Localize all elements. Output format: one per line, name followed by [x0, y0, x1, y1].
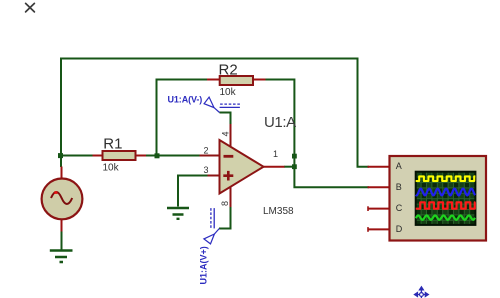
- op-amp plus input marker: [223, 171, 233, 181]
- pin stub scope D: [368, 228, 390, 230]
- ground near op-amp pin 3: [167, 208, 189, 219]
- voltage probe U1:A(V-): [204, 97, 240, 112]
- svg-text:U1:A: U1:A: [264, 114, 296, 131]
- oscilloscope body: [390, 156, 487, 241]
- pin stub R2 left: [207, 79, 220, 81]
- svg-text:B: B: [396, 182, 402, 192]
- junction node at op-amp output: [292, 164, 297, 169]
- wire R1 to op-amp pin 2: [146, 155, 200, 157]
- pin stub scope B: [368, 186, 390, 188]
- svg-text:1: 1: [273, 149, 278, 159]
- svg-text:LM358: LM358: [263, 206, 294, 217]
- wire top loop with left vertical: [61, 59, 358, 167]
- svg-text:10k: 10k: [103, 163, 120, 174]
- op-amp U1 triangle: [220, 140, 264, 194]
- wire R1 row left: [60, 155, 93, 157]
- resistor R1 body: [103, 151, 136, 160]
- wire scope channel A vertical: [358, 58, 370, 167]
- pin stub scope C: [368, 208, 390, 210]
- junction node at R1/feedback: [155, 153, 160, 158]
- svg-text:10k: 10k: [220, 87, 237, 98]
- wire source top: [60, 156, 62, 167]
- resistor R2 body: [220, 76, 253, 85]
- voltage probe U1:A(V+): [204, 208, 219, 244]
- pin stub source bottom: [61, 220, 63, 232]
- pin end tick scope D: [367, 227, 369, 232]
- pin 4 stub op-amp: [230, 124, 232, 148]
- pin stub R1 right: [135, 155, 146, 157]
- ground under source: [50, 251, 73, 263]
- close button X: [26, 3, 35, 12]
- svg-text:U1:A(V-): U1:A(V-): [168, 94, 203, 104]
- wire source bottom to ground: [61, 231, 63, 250]
- oscilloscope screen: [416, 172, 476, 225]
- blue sine wave trace: [416, 189, 475, 196]
- wire op-amp output green: [284, 166, 295, 168]
- wire R2 right down to scope channel B: [265, 80, 369, 188]
- pin 1 stub op-amp output: [264, 166, 285, 168]
- op-amp minus input marker: [224, 155, 234, 158]
- move cursor icon: [414, 287, 428, 298]
- yellow square wave trace: [416, 176, 476, 181]
- pin stub R2 right: [253, 79, 266, 81]
- svg-text:3: 3: [204, 165, 209, 175]
- svg-text:U1:A(V+): U1:A(V+): [199, 246, 209, 284]
- pin 3 stub op-amp: [208, 175, 220, 177]
- svg-text:2: 2: [204, 146, 209, 156]
- sine origin dot: [54, 191, 57, 194]
- svg-text:R1: R1: [103, 136, 122, 153]
- svg-text:A: A: [396, 161, 402, 171]
- junction node upper on output vertical: [292, 154, 297, 159]
- svg-text:4: 4: [221, 131, 231, 136]
- pin stub R1 left: [93, 155, 104, 157]
- wire feedback vertical to R2: [157, 80, 208, 156]
- sine symbol inside source: [51, 192, 72, 204]
- wire V- probe to op-amp pin 4: [220, 113, 231, 125]
- svg-text:C: C: [396, 203, 403, 213]
- sine voltage source V1: [42, 179, 83, 220]
- wire op-amp pin 3 to ground: [178, 176, 208, 207]
- green sine wave trace: [416, 215, 475, 219]
- pin 8 stub op-amp: [230, 187, 232, 208]
- svg-text:D: D: [396, 224, 403, 234]
- pin stub source top: [61, 167, 63, 180]
- wire op-amp pin 8 to V+ probe: [219, 207, 231, 229]
- svg-text:8: 8: [220, 201, 230, 206]
- pin 2 stub op-amp: [200, 155, 220, 157]
- pin end tick scope C: [367, 206, 369, 211]
- junction node at source/R1: [58, 153, 63, 158]
- svg-text:R2: R2: [219, 61, 238, 78]
- pin stub scope A: [368, 166, 390, 168]
- red square wave trace: [416, 202, 476, 208]
